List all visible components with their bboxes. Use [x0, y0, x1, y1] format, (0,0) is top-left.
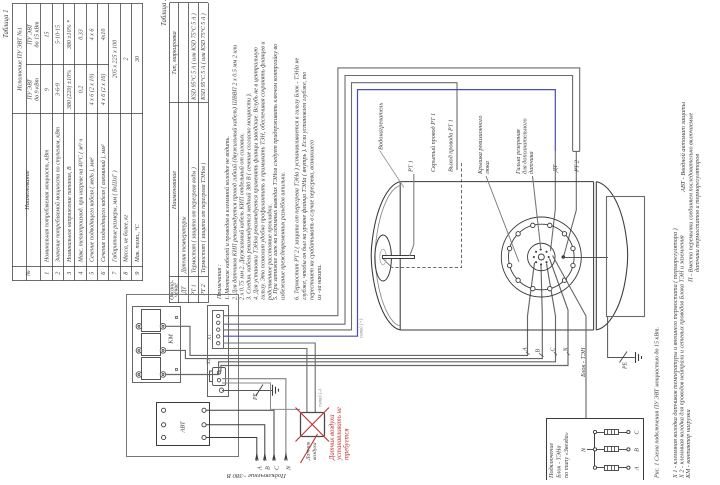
svg-text:КSD 95°С 5 А ( или КSD 75°С: КSD 95°С 5 А ( или КSD 75°С 5 А )	[190, 13, 197, 101]
wire X1-2 to RT2 (inner)	[223, 76, 573, 325]
terminal module X1/X2 outline	[208, 306, 229, 397]
svg-text:Датчик: Датчик	[306, 441, 312, 461]
svg-text:АВТ: АВТ	[180, 421, 187, 433]
svg-text:А: А	[523, 347, 529, 352]
wire RT1 label lead	[410, 174, 414, 256]
svg-text:Габаритные размеры, мм ( ВхШ: Габаритные размеры, мм ( ВхШхГ )	[111, 170, 118, 263]
svg-text:Макс. теплопроизвод. при нагр: Макс. теплопроизвод. при нагреве на 40°С…	[77, 139, 84, 263]
X2 PE terminal	[219, 388, 223, 392]
svg-text:3: 3	[66, 272, 73, 276]
table T2 grid	[170, 3, 209, 304]
svg-text:РТ 2: РТ 2	[574, 160, 581, 173]
svg-text:ДТ: ДТ	[182, 286, 188, 295]
svg-text:ПУ ЭВТ: ПУ ЭВТ	[28, 79, 34, 101]
svg-text:4х10: 4х10	[100, 29, 107, 41]
svg-text:КМ: КМ	[168, 334, 175, 345]
svg-text:4 х 6: 4 х 6	[89, 29, 96, 41]
svg-text:Термостат ( защита от перегре: Термостат ( защита от перегрева ТЭНов )	[200, 163, 207, 273]
KM relay 3 terminals	[136, 372, 142, 378]
wire AVT phase C to supply arrow	[206, 410, 274, 461]
svg-text:5. При затяжке гаек на клеммны: 5. При затяжке гаек на клеммных выводах …	[272, 44, 279, 300]
svg-text:датчики термостатов и терморег: датчики термостатов и терморегуляторов	[694, 154, 701, 272]
boiler left cap inner line	[375, 186, 400, 326]
svg-text:30: 30	[135, 56, 141, 63]
supply arrows A B C N	[255, 452, 259, 461]
svg-text:В: В	[634, 448, 641, 452]
svg-text:Рис. 1 Схема подключения ПУ Э: Рис. 1 Схема подключения ПУ ЭВТ мощность…	[654, 327, 661, 479]
svg-text:2. Для датчиков КИП рекомендуе: 2. Для датчиков КИП рекомендуется провод…	[232, 45, 239, 300]
breaker AVT box	[157, 403, 210, 446]
svg-text:4. Для установки ТЭНов рекомен: 4. Для установки ТЭНов рекомендуется при…	[253, 46, 260, 300]
star connection box	[547, 419, 644, 481]
svg-text:до 9 кВт: до 9 кВт	[34, 77, 41, 101]
contactor KM relay 3	[142, 358, 161, 380]
svg-text:Масса, не более, кг: Масса, не более, кг	[123, 214, 130, 263]
heating element А	[593, 466, 596, 469]
svg-text:Х1: Х1	[207, 334, 213, 341]
KM module pins	[176, 317, 178, 319]
svg-text:Наименование: Наименование	[171, 171, 178, 210]
svg-text:Тип, маркировка: Тип, маркировка	[171, 31, 178, 74]
svg-text:4 х 6 (2 х 10): 4 х 6 (2 х 10)	[89, 74, 96, 106]
svg-text:№: №	[25, 270, 32, 277]
wire X2 to air sensor	[222, 383, 300, 409]
svg-text:PE: PE	[253, 392, 259, 401]
red cross over air sensor	[296, 408, 330, 464]
svg-text:КМ - контактор нагрузки: КМ - контактор нагрузки	[685, 409, 692, 479]
wire X1-6 to air sensor	[223, 349, 307, 413]
svg-text:Мак. темп., °С: Мак. темп., °С	[134, 224, 141, 263]
svg-text:из -за накипи.: из -за накипи.	[317, 264, 323, 300]
svg-text:Подключение ~380 В: Подключение ~380 В	[227, 472, 287, 479]
svg-text:Блок - ТЭНа: Блок - ТЭНа	[556, 445, 563, 479]
wire phase B KM to TEN flange	[166, 265, 543, 359]
svg-text:Исполнение ПУ ЭВТ №1: Исполнение ПУ ЭВТ №1	[17, 27, 24, 92]
svg-text:Сечение подводящего кабеля (: Сечение подводящего кабеля ( алюминий ),…	[100, 144, 107, 262]
svg-text:3. Соедин. кабель рекомендуетс: 3. Соедин. кабель рекомендуется медный 3…	[246, 93, 253, 301]
boiler left end cap	[371, 182, 400, 330]
svg-text:0.2: 0.2	[78, 86, 84, 94]
svg-text:ПУ ЭВТ: ПУ ЭВТ	[28, 24, 34, 46]
wire X1-4 to DT (blue)	[223, 90, 555, 337]
svg-text:В: В	[536, 349, 542, 353]
svg-text:9: 9	[44, 88, 50, 91]
svg-text:Номинальное напряжение питан: Номинальное напряжение питания, В	[67, 166, 73, 263]
svg-text:3-6-9: 3-6-9	[56, 83, 62, 97]
air sensor box (crossed out)	[301, 413, 325, 437]
svg-text:N: N	[581, 447, 588, 453]
control unit enclosure box	[127, 295, 239, 457]
svg-text:С: С	[551, 348, 557, 352]
wire X1-3 to RT1 exit	[223, 83, 457, 330]
svg-text:5-10-15: 5-10-15	[56, 25, 62, 44]
terminal block X2	[213, 368, 226, 386]
wire X1-1 to RT2 (outer)	[223, 68, 580, 316]
svg-text:Водонагреватель: Водонагреватель	[378, 103, 385, 150]
svg-text:глубже, чтобы он был на уровн: глубже, чтобы он был на уровне фланца ТЭ…	[301, 72, 308, 300]
hidden wire RT1 (dashed)	[392, 163, 462, 268]
svg-text:1: 1	[43, 272, 50, 275]
svg-text:Х2: Х2	[206, 358, 212, 365]
svg-text:В: В	[264, 466, 271, 470]
svg-text:Номинальная потребляемая мощ: Номинальная потребляемая мощность, кВт	[43, 150, 50, 263]
TEN terminal pins	[540, 249, 542, 251]
svg-text:избежание преждевременных разь: избежание преждевременных разьёбов шпиль…	[280, 172, 287, 300]
svg-text:А: А	[256, 466, 263, 471]
wire AVT phase B to supply arrow	[206, 425, 265, 461]
svg-text:Блок - ТЭН: Блок - ТЭН	[580, 347, 587, 378]
svg-text:4 х 6 (2 х 16): 4 х 6 (2 х 16)	[100, 74, 107, 106]
heating element С	[593, 430, 596, 433]
svg-text:Значение потребляемой мощности: Значение потребляемой мощности по ступен…	[55, 127, 62, 262]
svg-text:КSD 95°С 5 А ( или КSD 75°С: КSD 95°С 5 А ( или КSD 75°С 5 А )	[200, 13, 207, 101]
svg-text:ДТ: ДТ	[552, 164, 559, 173]
RT1 sensor bulb	[380, 249, 386, 265]
svg-text:2 х 0.75 мм 2. Двужильный каб: 2 х 0.75 мм 2. Двужильный кабель КИП отд…	[239, 133, 246, 300]
svg-text:АВТ - Вводной автомат защиты: АВТ - Вводной автомат защиты	[680, 101, 687, 193]
svg-text:Таблица 2: Таблица 2	[161, 0, 168, 26]
wire X2 neutral to supply arrow	[222, 379, 286, 461]
RT1 capillary bar	[383, 256, 415, 259]
svg-text:гильзу. Это позволит удобно пр: гильзу. Это позволит удобно профилактить…	[260, 42, 267, 300]
svg-text:по типу «Звезда»: по типу «Звезда»	[563, 432, 570, 478]
svg-text:Скрытый провод РТ 1: Скрытый провод РТ 1	[430, 113, 437, 172]
svg-text:N: N	[285, 465, 292, 471]
wire X1-5 to air sensor	[223, 343, 315, 413]
boiler (водонагреватель) body	[371, 182, 627, 330]
svg-text:9: 9	[134, 272, 141, 275]
svg-text:PE: PE	[623, 361, 629, 370]
svg-text:2: 2	[55, 272, 62, 275]
svg-text:перестанет на срабатывать в сл: перестанет на срабатывать в случае перег…	[309, 140, 316, 300]
contactor KM relay 1	[142, 310, 161, 332]
svg-text:6. Термостат РТ 2 ( защита от: 6. Термостат РТ 2 ( защита от перегрева …	[294, 57, 301, 300]
svg-text:205 х 225 х 100: 205 х 225 х 100	[112, 40, 118, 78]
svg-text:синий (-): синий (-)	[318, 389, 324, 407]
svg-text:Сечение подводящего кабеля (: Сечение подводящего кабеля ( медь ), мм²	[89, 157, 96, 262]
svg-text:требуется: требуется	[343, 428, 350, 460]
wire AVT phase A to supply arrow	[206, 438, 257, 462]
svg-text:2: 2	[124, 58, 130, 61]
PE ground at boiler	[608, 317, 635, 358]
wire phase A KM to TEN flange	[166, 263, 535, 356]
svg-text:4: 4	[77, 272, 84, 275]
svg-text:5: 5	[89, 272, 96, 275]
wire phase C KM to TEN flange	[166, 264, 556, 375]
table T1 grid	[12, 4, 143, 281]
TEN cover box on end	[607, 197, 645, 317]
svg-text:380 (220) ±10%: 380 (220) ±10%	[66, 70, 73, 110]
svg-text:А: А	[634, 466, 641, 471]
TEN flange	[501, 217, 581, 297]
flange bolt holes	[571, 246, 575, 250]
svg-text:Крышка ревизионного: Крышка ревизионного	[477, 116, 484, 175]
svg-text:датчика: датчика	[528, 151, 535, 174]
contactor module KM outline	[133, 307, 181, 383]
svg-text:устанавливать не: устанавливать не	[336, 407, 343, 461]
heating element В	[593, 448, 596, 451]
svg-text:воздуха: воздуха	[311, 442, 318, 460]
star bus	[594, 432, 596, 468]
PE ground at control unit	[222, 390, 273, 392]
wire Блок-ТЭН from flange to star box	[553, 256, 587, 420]
RT2 mount dot	[562, 255, 566, 259]
svg-text:до 15 кВт: до 15 кВт	[34, 21, 41, 48]
contactor KM relay 2	[142, 334, 161, 356]
svg-text:Наименование: Наименование	[24, 170, 31, 211]
boiler left-end oval (manhole)	[375, 235, 392, 281]
svg-text:люка: люка	[484, 161, 491, 175]
svg-text:Датчик воздуха: Датчик воздуха	[329, 414, 336, 461]
svg-text:синий (+): синий (+)	[359, 318, 365, 338]
svg-text:Подключение: Подключение	[548, 443, 555, 479]
KM relay 2 terminals	[136, 348, 142, 354]
KM relay 1 terminals	[136, 324, 142, 330]
wire RT2 dot to cover box	[563, 257, 608, 259]
svg-text:1. Монтаж кабелей и проводов в: 1. Монтаж кабелей и проводов в клеммной …	[224, 136, 231, 300]
terminal strip X1	[213, 311, 224, 349]
svg-text:Таблица 1: Таблица 1	[3, 9, 10, 38]
svg-text:0.33: 0.33	[78, 29, 84, 40]
svg-text:Термостат ( защита от перегре: Термостат ( защита от перегрева воды )	[190, 167, 197, 273]
svg-text:РТ 1: РТ 1	[408, 160, 415, 173]
svg-text:15: 15	[44, 32, 50, 38]
X2 jumper	[210, 371, 213, 382]
svg-text:Выход провода РТ 1: Выход провода РТ 1	[447, 119, 454, 172]
svg-text:Датчик температуры: Датчик температуры	[182, 217, 188, 274]
boiler right end cap	[596, 182, 627, 330]
wire neutral N X2 to TEN flange	[221, 259, 568, 372]
svg-text:380 ±10% *: 380 ±10% *	[67, 20, 73, 50]
